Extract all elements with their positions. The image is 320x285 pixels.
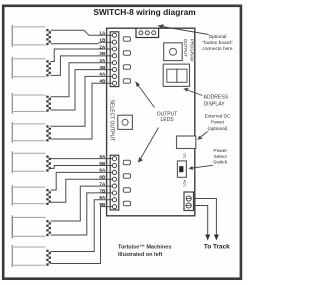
button board connector J3	[136, 28, 159, 37]
svg-text:7A: 7A	[99, 181, 106, 186]
svg-text:DISPLAY: DISPLAY	[204, 101, 226, 107]
output LED D6	[123, 174, 130, 179]
svg-text:External DC: External DC	[205, 114, 231, 120]
pushbutton SW1 program output	[164, 43, 183, 61]
wire 1B	[51, 42, 115, 44]
svg-text:Switch: Switch	[213, 160, 227, 166]
wire 8B	[51, 207, 115, 264]
arrowhead track B	[205, 235, 210, 241]
arrow from OUTPUT LEDS to lower LEDs	[138, 128, 159, 163]
svg-text:1A: 1A	[99, 31, 106, 36]
wire 2B	[51, 56, 115, 76]
tortoise machine M8	[12, 245, 51, 267]
svg-text:1B: 1B	[99, 38, 106, 43]
output LED D5	[123, 160, 130, 165]
label Tortoise Machines illustrated on left	[118, 244, 171, 258]
tortoise machine M6	[12, 185, 51, 206]
svg-text:6A: 6A	[99, 168, 106, 173]
wire 5B	[51, 166, 115, 169]
wire 2A	[51, 49, 115, 62]
svg-text:Tortoise™ Machines: Tortoise™ Machines	[118, 244, 171, 250]
svg-text:5A: 5A	[99, 154, 106, 159]
terminal strip J1 (outputs 1-4)	[110, 32, 119, 87]
arrow to DC power jack	[197, 132, 207, 140]
output LED D4	[123, 79, 130, 84]
label External DC Power (optional)	[205, 114, 231, 132]
address display DS1	[163, 64, 189, 86]
wire 7B	[51, 193, 115, 235]
svg-text:Illustrated on left: Illustrated on left	[118, 252, 162, 258]
label Optional button board connects here	[202, 34, 233, 52]
svg-text:connects here: connects here	[202, 46, 232, 52]
svg-text:To Track: To Track	[204, 244, 230, 251]
tortoise machine M2	[12, 57, 51, 79]
output LED D2	[123, 51, 130, 56]
svg-text:Power: Power	[211, 120, 225, 126]
svg-text:Optional: Optional	[209, 34, 227, 40]
svg-text:8B: 8B	[99, 202, 106, 207]
svg-text:Select: Select	[214, 154, 228, 160]
svg-text:7B: 7B	[99, 188, 106, 193]
svg-text:"button board": "button board"	[202, 40, 233, 46]
label Power Select Switch	[213, 148, 227, 166]
svg-text:ACC: ACC	[182, 180, 186, 188]
svg-text:SELECT OUTPUT: SELECT OUTPUT	[109, 100, 115, 141]
wire 4B	[51, 83, 115, 139]
svg-text:OUTPUT: OUTPUT	[183, 39, 188, 57]
wire 7A	[51, 186, 115, 221]
output LED D1	[123, 37, 130, 42]
output LED D7	[123, 188, 130, 193]
arrow from OUTPUT LEDS to upper LEDs	[135, 81, 154, 107]
svg-text:2B: 2B	[99, 51, 106, 56]
tortoise machine M4	[12, 122, 51, 143]
tortoise machine M1	[12, 25, 51, 47]
label ADDRESS DISPLAY	[204, 94, 229, 107]
tortoise machine M7	[12, 215, 51, 238]
wire 1A	[51, 30, 115, 35]
svg-text:LEDS: LEDS	[160, 117, 174, 123]
wire 5A	[51, 158, 115, 160]
arrowhead track A	[214, 235, 219, 241]
terminal strip J2 (outputs 5-8)	[110, 155, 119, 210]
wire 3B	[51, 70, 115, 110]
wire track B	[194, 206, 208, 236]
power select switch SW3	[177, 161, 186, 177]
svg-text:(optional): (optional)	[208, 126, 228, 132]
svg-text:3A: 3A	[99, 58, 106, 63]
pushbutton SW2 select output	[118, 115, 133, 129]
tortoise machine M3	[12, 93, 51, 114]
arrow to button board connector	[157, 24, 208, 34]
arrow to power select switch	[189, 165, 213, 170]
tortoise machine M5	[12, 151, 51, 173]
wire 3A	[51, 63, 115, 97]
svg-text:8A: 8A	[99, 195, 106, 200]
svg-text:Power: Power	[213, 148, 227, 154]
svg-text:4B: 4B	[99, 79, 106, 84]
DC power jack J4	[177, 136, 196, 149]
svg-text:4A: 4A	[99, 72, 106, 77]
svg-text:3B: 3B	[99, 65, 106, 70]
output LED D3	[123, 65, 130, 70]
svg-text:PROGRAM: PROGRAM	[189, 39, 194, 62]
svg-text:DC: DC	[182, 154, 186, 160]
wire 6A	[51, 172, 115, 190]
svg-text:SWITCH-8 wiring diagram: SWITCH-8 wiring diagram	[93, 7, 195, 17]
wire 6B	[51, 179, 115, 202]
svg-text:6B: 6B	[99, 175, 106, 180]
arrow to address display	[183, 88, 202, 96]
output LED D8	[123, 201, 130, 206]
wire 8A	[51, 200, 115, 252]
SWITCH-8 board outline	[107, 28, 195, 216]
wire track A	[194, 199, 217, 236]
svg-text:ADDRESS: ADDRESS	[204, 94, 229, 100]
svg-text:5B: 5B	[99, 161, 106, 166]
track terminal block J5	[184, 192, 194, 211]
svg-text:2A: 2A	[99, 44, 106, 49]
wire 4A	[51, 76, 115, 126]
